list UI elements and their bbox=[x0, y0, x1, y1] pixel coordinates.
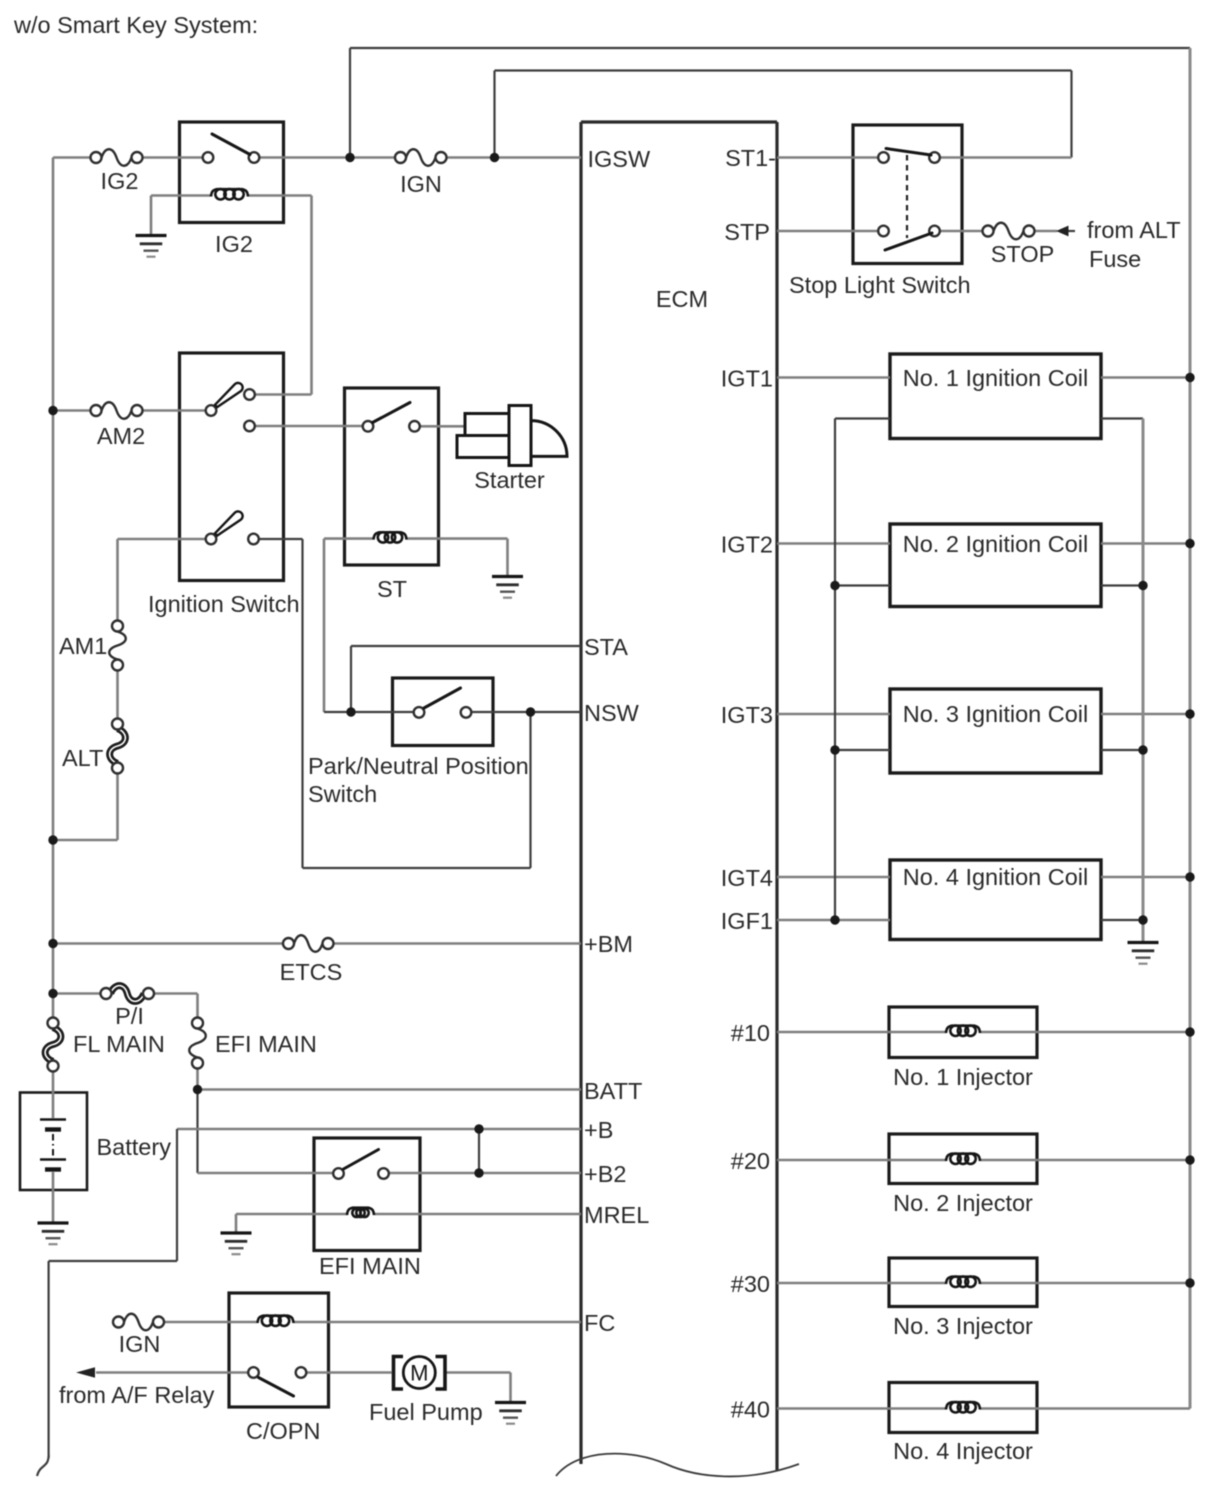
junction right bus #10 bbox=[1185, 1027, 1194, 1036]
wire +B off-page leg bbox=[47, 1261, 49, 1458]
wire STOP fuse to arrow bbox=[1029, 230, 1057, 233]
contacts of stop light switch lower pole bbox=[878, 226, 889, 237]
starter symbol bbox=[465, 414, 510, 436]
svg-text:+BM: +BM bbox=[584, 931, 633, 957]
junction P/I tap bbox=[48, 989, 57, 998]
wire ECM BATT row bbox=[198, 1088, 582, 1091]
wire second feed riser bbox=[493, 71, 495, 158]
wire ECM STP to stop light switch bbox=[777, 230, 884, 233]
coil of No. 2 injector bbox=[946, 1154, 953, 1161]
wire +BM row right bbox=[328, 942, 581, 945]
wire relay IG2 contact to IGN junction bbox=[254, 156, 350, 159]
fuse IG2 bbox=[102, 149, 132, 166]
svg-text:Ignition Switch: Ignition Switch bbox=[148, 591, 300, 617]
wire No.3 coil lower left lead bbox=[835, 749, 890, 751]
junction right bus #30 bbox=[1185, 1278, 1194, 1287]
svg-text:No. 2 Injector: No. 2 Injector bbox=[893, 1190, 1033, 1216]
wire ECM #20 to No.2 injector bbox=[777, 1159, 946, 1162]
wire ECM #30 to No.3 injector bbox=[777, 1282, 946, 1285]
svg-text:STOP: STOP bbox=[991, 241, 1055, 267]
svg-text:#20: #20 bbox=[731, 1148, 770, 1174]
No. 1 ignition coil box bbox=[890, 354, 1101, 439]
wire +B2 row right bbox=[384, 1172, 582, 1175]
contacts of relay C/OPN bbox=[248, 1367, 259, 1378]
svg-text:from ALT: from ALT bbox=[1087, 217, 1181, 243]
No. 3 injector box bbox=[889, 1258, 1037, 1307]
wire ECM IGT4 to No.4 coil bbox=[777, 876, 890, 879]
coil of No. 3 injector bbox=[946, 1277, 953, 1284]
wire fuel pump to ground corner bbox=[445, 1371, 511, 1374]
wire from A/F relay to C/OPN contact bbox=[96, 1371, 254, 1374]
wire ignition switch IG contact stub bbox=[250, 393, 312, 396]
relay ST box bbox=[345, 388, 439, 565]
ground (relay IG2 coil) bbox=[136, 234, 167, 237]
wire EFI MAIN relay coil ground drop bbox=[235, 1214, 238, 1232]
svg-text:IGT2: IGT2 bbox=[721, 532, 773, 558]
ECM box (white body, torn bottom edge) bbox=[560, 122, 777, 1478]
wire AM1 chain upper bbox=[116, 539, 119, 621]
wire C/OPN coil to ECM FC bbox=[294, 1321, 582, 1324]
wire relay IG2 coil right lead bbox=[248, 194, 312, 197]
wire stop light switch to feed drop bbox=[935, 156, 1072, 159]
wire ECM ST1- to stop light switch bbox=[777, 156, 884, 159]
wire coil ground bus bbox=[1142, 419, 1145, 942]
wire left bus below FL MAIN bbox=[52, 1072, 55, 1093]
svg-text:#10: #10 bbox=[731, 1020, 770, 1046]
junction right bus #20 bbox=[1185, 1155, 1194, 1164]
wire IG2 coil ground lead bbox=[150, 196, 153, 235]
junction +BM tap bbox=[48, 939, 57, 948]
contacts of relay ST bbox=[363, 421, 374, 432]
junction IGSW feed bbox=[490, 153, 499, 162]
wire No.3 coil lower right lead bbox=[1101, 749, 1143, 751]
fuse IGN (C/OPN feed) bbox=[124, 1314, 153, 1331]
wire BATT junction down to +B2 row bbox=[196, 1090, 198, 1174]
svg-text:from A/F Relay: from A/F Relay bbox=[59, 1382, 215, 1408]
svg-text:NSW: NSW bbox=[584, 700, 640, 726]
wire No.2 injector to right bus bbox=[980, 1159, 1190, 1162]
wire ignition switch ST lead bbox=[254, 538, 303, 540]
wire ECM IGT1 to No.1 coil bbox=[777, 376, 890, 379]
svg-text:No. 4 Ignition Coil: No. 4 Ignition Coil bbox=[903, 864, 1089, 890]
wire P/I corner down to EFI MAIN fuse bbox=[196, 994, 199, 1018]
svg-text:MREL: MREL bbox=[584, 1202, 649, 1228]
junction right bus IGT4 bbox=[1185, 872, 1194, 881]
junction BATT tap bbox=[193, 1085, 202, 1094]
wire ALT corner to left bus bbox=[53, 839, 118, 842]
No. 4 ignition coil box bbox=[890, 860, 1101, 940]
park/neutral position switch box bbox=[393, 678, 494, 746]
wire No.2 coil lower right lead bbox=[1101, 584, 1143, 586]
junction AM2 tap bbox=[48, 406, 57, 415]
wire stop light switch to STOP fuse bbox=[935, 230, 989, 233]
fuse AM2 bbox=[102, 402, 132, 419]
svg-text:No. 3 Ignition Coil: No. 3 Ignition Coil bbox=[903, 701, 1089, 727]
wire No.1 injector to right bus bbox=[980, 1031, 1190, 1034]
svg-text:ST: ST bbox=[377, 576, 407, 602]
wire NSW row to park/neutral switch bbox=[324, 711, 419, 713]
wire +B bottom leg bbox=[49, 1260, 177, 1262]
junction right bus IGT2 bbox=[1185, 539, 1194, 548]
svg-text:IGT4: IGT4 bbox=[721, 865, 773, 891]
wire No.3 coil to right bus bbox=[1101, 713, 1190, 716]
svg-text:+B: +B bbox=[584, 1117, 613, 1143]
wire relay IG2 coil left lead bbox=[151, 194, 211, 197]
svg-text:IG2: IG2 bbox=[215, 231, 253, 257]
wire ECM #40 to No.4 injector bbox=[777, 1407, 946, 1410]
wire No.2 coil lower left lead bbox=[835, 584, 890, 586]
junction +B link lower bbox=[474, 1168, 483, 1177]
svg-text:ALT: ALT bbox=[62, 745, 103, 771]
wire ignition switch AM1 lead bbox=[118, 538, 212, 541]
wire P/I row left bbox=[53, 992, 106, 995]
relay IG2 box bbox=[180, 122, 284, 223]
wire IG2 coil to ignition switch IG contact bbox=[310, 196, 313, 395]
wire +B to +B2 link bbox=[478, 1129, 480, 1173]
junction coil ground No.2 bbox=[1138, 581, 1147, 590]
relay C/OPN box bbox=[229, 1293, 329, 1407]
svg-text:Fuse: Fuse bbox=[1089, 246, 1141, 272]
svg-text:ECM: ECM bbox=[656, 286, 708, 312]
wire ignition switch ST2 contact to relay ST bbox=[250, 425, 369, 428]
contacts of stop light switch upper pole bbox=[878, 152, 889, 163]
wire C/OPN contact to fuel pump bbox=[301, 1371, 392, 1374]
svg-text:ETCS: ETCS bbox=[280, 959, 343, 985]
svg-text:IG2: IG2 bbox=[101, 168, 139, 194]
contacts of relay IG2 bbox=[203, 152, 214, 163]
contacts of park/neutral position switch bbox=[414, 707, 425, 718]
wire ECM IGT2 to No.2 coil bbox=[777, 542, 890, 545]
svg-text:Switch: Switch bbox=[308, 781, 377, 807]
contacts of relay EFI MAIN bbox=[333, 1168, 344, 1179]
svg-text:P/I: P/I bbox=[115, 1003, 144, 1029]
wire No.2 coil to right bus bbox=[1101, 542, 1190, 545]
stop light switch pole link (dashed) bbox=[906, 155, 908, 238]
coil of relay IG2 bbox=[211, 189, 218, 196]
wire IGN junction to IGN fuse bbox=[350, 156, 401, 159]
junction coil ground No.4 bbox=[1138, 915, 1147, 924]
fuse STOP bbox=[994, 223, 1024, 240]
svg-text:IGN: IGN bbox=[119, 1331, 161, 1357]
wire +BM row left bbox=[53, 942, 289, 945]
fuse IGN bbox=[406, 149, 436, 166]
wire No.4 injector to right bus bbox=[980, 1407, 1190, 1410]
wire left bus upper segment bbox=[52, 158, 55, 1018]
arrow from A/F relay bbox=[76, 1367, 95, 1377]
svg-text:C/OPN: C/OPN bbox=[246, 1418, 320, 1444]
svg-text:IGT3: IGT3 bbox=[721, 702, 773, 728]
wire ST loop drop bbox=[301, 539, 303, 868]
junction IGF bus IGF1 bbox=[830, 915, 839, 924]
wire top feed riser from IGN junction bbox=[349, 48, 351, 158]
wire ECM IGT3 to No.3 coil bbox=[777, 713, 890, 716]
No. 4 injector box bbox=[889, 1383, 1037, 1433]
wire ST loop bottom bbox=[303, 867, 531, 869]
coil of relay EFI MAIN bbox=[347, 1208, 354, 1215]
battery symbol bbox=[52, 1093, 55, 1119]
svg-text:AM2: AM2 bbox=[97, 423, 145, 449]
fuse AM1 (vertical) bbox=[109, 632, 126, 660]
svg-text:Stop Light Switch: Stop Light Switch bbox=[789, 272, 971, 298]
contacts of ignition switch ST pole bbox=[206, 534, 217, 545]
wire relay ST coil right lead bbox=[407, 537, 508, 540]
junction +B link upper bbox=[474, 1124, 483, 1133]
fusible link FL MAIN (vertical) bbox=[45, 1028, 61, 1062]
wire ECM MREL row bbox=[374, 1213, 582, 1216]
junction right bus IGT3 bbox=[1185, 709, 1194, 718]
junction IGN feed bbox=[345, 153, 354, 162]
svg-text:IGN: IGN bbox=[400, 171, 442, 197]
coil of relay C/OPN bbox=[258, 1316, 265, 1323]
svg-text:Battery: Battery bbox=[97, 1134, 172, 1160]
ground (battery) bbox=[38, 1221, 69, 1224]
svg-text:No. 3 Injector: No. 3 Injector bbox=[893, 1313, 1033, 1339]
svg-text:IGSW: IGSW bbox=[588, 146, 651, 172]
svg-text:#40: #40 bbox=[731, 1397, 770, 1423]
coil of No. 1 injector bbox=[946, 1026, 953, 1033]
wire ECM IGF1 to No.4 coil bbox=[777, 919, 890, 922]
svg-text:IGT1: IGT1 bbox=[721, 366, 773, 392]
svg-text:IGF1: IGF1 bbox=[721, 908, 773, 934]
wire second feed line bbox=[495, 69, 1072, 71]
No. 3 ignition coil box bbox=[890, 689, 1101, 773]
ignition switch box bbox=[180, 353, 284, 581]
wire IGN fuse to C/OPN coil bbox=[164, 1321, 258, 1324]
wire relay ST coil left lead bbox=[324, 537, 373, 540]
wire top feed line to right bus bbox=[350, 47, 1190, 49]
wire IGF bus bbox=[834, 419, 836, 921]
wire IGN fuse to junction bbox=[441, 156, 495, 159]
wire AM2 row bus to fuse bbox=[53, 409, 96, 412]
svg-text:No. 1 Injector: No. 1 Injector bbox=[893, 1064, 1033, 1090]
wire EFI MAIN fuse to BATT junction bbox=[196, 1069, 199, 1090]
wire No.4 coil to right bus bbox=[1101, 876, 1190, 879]
svg-text:No. 1 Ignition Coil: No. 1 Ignition Coil bbox=[903, 365, 1089, 391]
wire +B row bbox=[177, 1128, 581, 1131]
wire No.3 injector to right bus bbox=[980, 1282, 1190, 1285]
svg-text:EFI MAIN: EFI MAIN bbox=[215, 1031, 317, 1057]
wire +B2 row left bbox=[198, 1172, 339, 1175]
wire relay ST coil to NSW drop bbox=[323, 539, 326, 712]
svg-text:#30: #30 bbox=[731, 1271, 770, 1297]
wire right bus bbox=[1189, 48, 1192, 1409]
fuse ETCS bbox=[294, 935, 323, 952]
wire EFI MAIN relay coil left lead bbox=[236, 1213, 348, 1216]
wire No.4 coil lower right lead bbox=[1101, 919, 1143, 921]
wire fuel pump ground drop bbox=[509, 1373, 512, 1402]
svg-text:Starter: Starter bbox=[474, 467, 545, 493]
stop light switch box bbox=[853, 125, 962, 264]
wire relay ST to starter bbox=[415, 425, 466, 428]
svg-text:No. 2 Ignition Coil: No. 2 Ignition Coil bbox=[903, 531, 1089, 557]
svg-text:+B2: +B2 bbox=[584, 1161, 626, 1187]
wire off-page torn end bbox=[37, 1455, 49, 1476]
ground (fuel pump) bbox=[495, 1401, 526, 1404]
wire park/neutral switch to ECM NSW bbox=[466, 711, 581, 713]
wire ECM #10 to No.1 injector bbox=[777, 1031, 946, 1034]
wire ALT link to bottom corner bbox=[116, 774, 119, 841]
No. 1 injector box bbox=[889, 1007, 1037, 1058]
wire ECM STA row bbox=[351, 645, 581, 647]
wire STA drop to NSW junction bbox=[350, 646, 352, 712]
wire IG2 fuse to relay IG2 contact bbox=[137, 156, 208, 159]
junction NSW/ST loop bbox=[526, 707, 535, 716]
fusible link P/I bbox=[111, 986, 145, 1002]
svg-text:w/o Smart Key System:: w/o Smart Key System: bbox=[13, 12, 258, 38]
wire second feed drop to ST1 row bbox=[1070, 71, 1072, 158]
svg-text:AM1: AM1 bbox=[59, 633, 107, 659]
arrow from ALT fuse bbox=[1056, 226, 1069, 237]
wire ST loop riser to NSW junction bbox=[529, 712, 531, 868]
battery box bbox=[20, 1093, 87, 1191]
coil of relay ST bbox=[374, 532, 381, 539]
svg-text:EFI MAIN: EFI MAIN bbox=[319, 1253, 421, 1279]
svg-text:STP: STP bbox=[724, 219, 770, 245]
coil of No. 4 injector bbox=[946, 1402, 953, 1409]
wire AM2 fuse to ignition switch bbox=[137, 409, 211, 412]
fuse EFI MAIN (vertical) bbox=[189, 1029, 206, 1058]
junction coil ground No.3 bbox=[1138, 745, 1147, 754]
fuel pump motor bbox=[394, 1357, 404, 1390]
wire junction to ECM IGSW pin bbox=[495, 156, 582, 159]
junction right bus IGT1 bbox=[1185, 373, 1194, 382]
svg-text:No. 4 Injector: No. 4 Injector bbox=[893, 1438, 1033, 1464]
wire P/I link to corner bbox=[149, 992, 198, 995]
relay EFI MAIN box bbox=[314, 1138, 420, 1251]
junction STA/NSW bbox=[346, 707, 355, 716]
No. 2 injector box bbox=[889, 1134, 1037, 1184]
contacts of ignition switch AM2 pole bbox=[206, 405, 217, 416]
svg-text:Park/Neutral Position: Park/Neutral Position bbox=[308, 753, 529, 779]
svg-text:M: M bbox=[410, 1361, 428, 1386]
No. 2 ignition coil box bbox=[890, 524, 1101, 607]
wire No.1 coil lower right lead bbox=[1101, 417, 1143, 419]
wire No.1 coil to right bus bbox=[1101, 376, 1190, 379]
svg-text:FL MAIN: FL MAIN bbox=[73, 1031, 165, 1057]
svg-text:ST1-: ST1- bbox=[725, 145, 776, 171]
svg-text:STA: STA bbox=[584, 634, 628, 660]
junction ALT return bbox=[48, 835, 57, 844]
wire No.1 coil lower left lead bbox=[835, 417, 890, 419]
ground (relay EFI MAIN coil) bbox=[221, 1231, 252, 1234]
junction IGF bus No.2 bbox=[830, 581, 839, 590]
wire +B down leg bbox=[176, 1129, 178, 1261]
ECM torn bottom wave bbox=[556, 1454, 799, 1477]
wire IGSW row from left bus to IG2 fuse bbox=[53, 156, 96, 159]
fusible link ALT (vertical) bbox=[110, 729, 126, 764]
svg-text:FC: FC bbox=[584, 1310, 615, 1336]
ground (relay ST coil) bbox=[492, 575, 523, 578]
junction IGF bus No.3 bbox=[830, 745, 839, 754]
wire AM1 to ALT link bbox=[116, 671, 119, 719]
wire relay ST coil ground drop bbox=[506, 539, 509, 575]
svg-text:BATT: BATT bbox=[584, 1078, 642, 1104]
svg-text:Fuel Pump: Fuel Pump bbox=[369, 1399, 483, 1425]
ground (ignition coils) bbox=[1128, 941, 1159, 944]
